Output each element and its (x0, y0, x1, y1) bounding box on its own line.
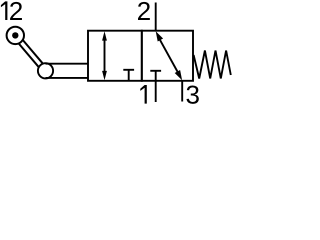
valve body right box (rest position) (142, 31, 193, 81)
pivot circle (38, 63, 53, 78)
port 1 stub wire (155, 81, 157, 102)
label 2 (output port) (138, 2, 150, 20)
label 1 (pressure port) (140, 85, 147, 104)
flow path vertical double arrow (left box, 1-2 passage) (102, 31, 107, 80)
lever arm (two parallel lines) (19, 40, 43, 67)
blocked port T1 (left box) (123, 70, 134, 80)
label 3 (exhaust port) (187, 85, 199, 103)
roller wheel hub dot (12, 32, 18, 38)
port 2 stub wire (155, 3, 157, 31)
valve body left box (actuated position) (88, 31, 142, 81)
return spring (194, 51, 231, 79)
plunger rod (two horizontal wires to body) (46, 64, 89, 78)
port 3 stub wire (181, 81, 183, 102)
roller wheel outer circle (7, 27, 24, 44)
label 12 (pilot port) (1, 1, 22, 20)
blocked port T2 (right box, port 1) (150, 71, 161, 80)
flow path diagonal double arrow (right box, 2-3 passage) (156, 31, 182, 80)
